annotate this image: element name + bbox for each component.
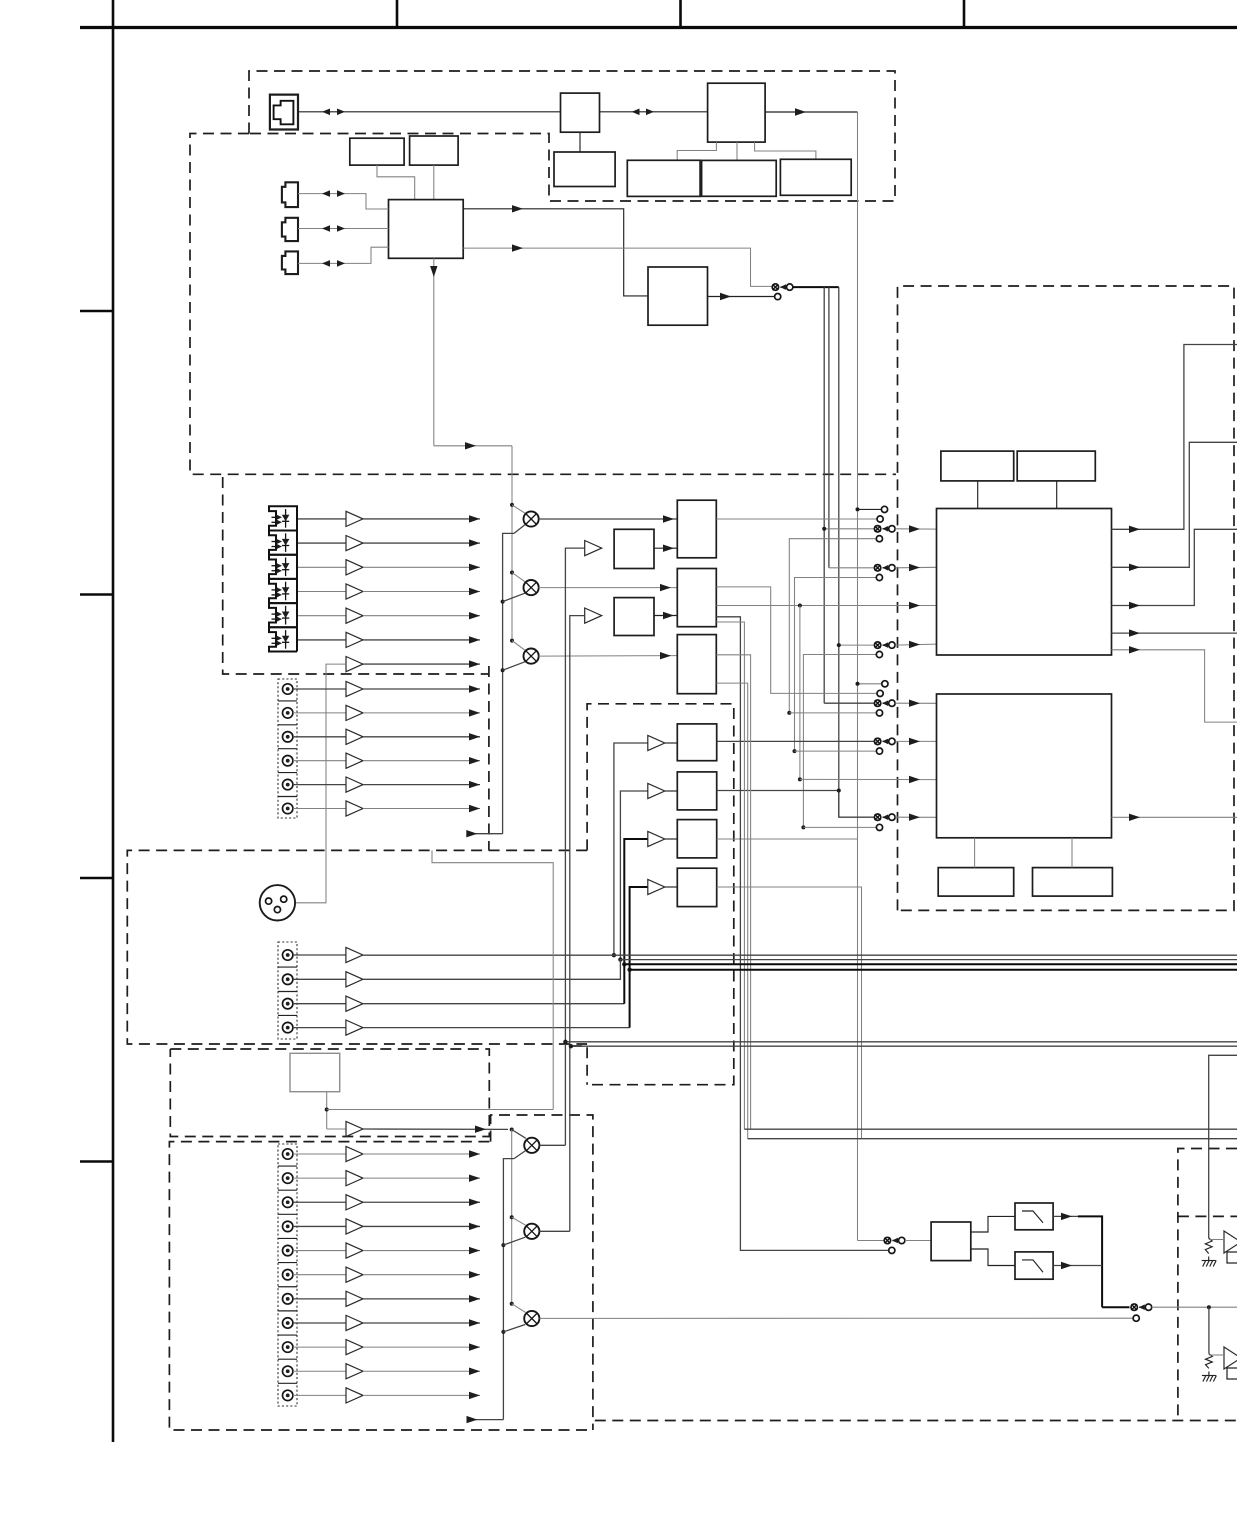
wire amp output [363,1370,480,1372]
wire amp output [363,712,480,714]
jack strip separator [278,796,297,798]
buffer amp xlr 1 [346,947,363,962]
dashed boundary XLR region [127,850,587,1044]
wire diag to mixer2b [512,1217,526,1225]
wire filter1 out [1053,1215,1080,1217]
block DAC1 [677,724,716,761]
wire row2 feed [829,567,874,569]
buffer amp optical 5 [346,608,363,623]
switch S2 [884,1237,890,1243]
contact [877,516,883,522]
RCA jack top 2 [283,708,293,718]
wire rom1 stub [974,838,976,868]
RCA jack bottom 7 [283,1294,293,1304]
wire selector2 return arrow [470,1419,503,1421]
wire jack to amp [293,1370,346,1372]
wire M5 out [539,1230,569,1232]
wire DSP1 out4 [1112,632,1237,634]
wire U10 bottom output [433,258,435,446]
wire diag mixer2 low [503,593,525,601]
wire DSP1 out3 [1112,529,1237,605]
wire jack to amp [293,1003,346,1005]
wire XLR to amp7 [295,664,346,903]
jack strip separator [278,700,297,702]
contact [876,710,882,716]
wire dock lateral [327,1109,554,1111]
wire diag to mixer3 [512,641,526,651]
RCA jack xlr 1 [283,950,293,960]
wire U3 stub mid [736,142,738,160]
wire amp output [363,1250,480,1252]
wire amp 5 output [363,615,480,617]
wire vertical B [828,287,830,568]
wire bus lower double 2 [748,1138,1237,1140]
mixer M5 [524,1224,539,1239]
wire jack to amp [293,1322,346,1324]
wire DIR3 out bundle3 [716,683,747,1139]
frame tick left 4 [80,1160,113,1163]
wire amp 6 output [363,639,480,641]
wire jack to amp [293,688,346,690]
ground [1208,1372,1210,1376]
dashed boundary analog-input region [169,1142,593,1430]
wire jack to amp [293,1201,346,1203]
wire xlr amp4 bus thick [630,970,1237,1028]
buffer amp dac 3 [648,831,665,846]
RCA jack top 1 [283,684,293,694]
wire link4 lower [803,826,876,828]
block DAC4 [677,868,716,906]
switch S1 [772,284,778,290]
buffer amp xlr 4 [346,1020,363,1035]
buffer amp dac 2 [648,783,665,798]
optical jack bank [269,506,297,530]
wire jack to amp [293,1274,346,1276]
wire amp 2 output [363,542,480,544]
junction [856,682,860,686]
mixer M6 [524,1311,539,1326]
jack strip separator [278,1334,297,1336]
junction [798,604,802,608]
RCA jack bottom 5 [283,1245,293,1255]
op-amp PA1 [1224,1231,1237,1253]
junction [501,600,505,604]
wire optical jack 4 to amp [298,591,346,593]
wire J2 to U10 [298,194,389,209]
op-amp PA2 [1224,1347,1237,1369]
wire diag mixer3 low [503,662,525,671]
wire jack to amp [293,1177,346,1179]
wire M1 to DIR1 [539,518,678,520]
wire amp output [363,1322,480,1324]
wire amp 1 output [363,518,480,520]
buffer amp bottom 1 [346,1146,363,1161]
wire selector2 vertical 2 [503,1159,514,1420]
wire link3 [799,606,801,780]
dashed boundary digital-main region [190,134,896,475]
wire optical jack 6 to amp [298,639,346,641]
wire ram1 stub [977,481,979,509]
wire amp output [363,1394,480,1396]
jack strip separator [278,772,297,774]
mixer M1 [524,511,539,526]
junction [798,777,802,781]
wire dock down [326,1092,328,1129]
junction [793,749,797,753]
wire amp to block [665,790,678,792]
dashed boundary dock region [170,1049,489,1137]
switch row2 [874,565,880,571]
wire U8 to U10 [377,165,415,200]
mixer M3 [524,649,539,664]
RCA jack bottom 1 [283,1149,293,1159]
RCA jack bottom 2 [283,1173,293,1183]
wire amp to block [665,742,678,744]
block U5 [627,160,700,196]
RCA jack strip top [278,679,297,818]
dashed boundary digital-top region [249,71,895,201]
wire R2 to amp [1209,1354,1223,1356]
junction [510,571,514,575]
wire jack to amp [293,1153,346,1155]
block DSP-RAM2 [1017,451,1095,481]
frame tick left 1 [80,310,113,313]
jack strip separator [278,991,297,993]
resistor R2 [1206,1354,1213,1369]
block DIR3 [677,635,716,694]
wire xlr amp3 out [363,1003,624,1005]
wire amp output [363,1298,480,1300]
frame tick top 1 [396,0,399,28]
wire optical jack 5 to amp [298,615,346,617]
wire bus feed to amp 1 [614,743,648,955]
block U4 [554,152,615,187]
block DIR2 [677,569,716,627]
wire DSP1 out5 [1112,650,1237,722]
buffer amp bottom 11 [346,1388,363,1403]
wire xlr amp3 bus thick [624,964,1237,1003]
wire selector vertical 1 [511,446,513,641]
buffer amp dac 1 [648,735,665,750]
connector J4 [282,251,298,274]
RCA jack strip xlr [278,942,297,1039]
wire amp output [363,1225,480,1227]
dashed boundary power region [1178,1149,1237,1421]
jack strip separator [278,724,297,726]
RCA jack bottom 4 [283,1221,293,1231]
junction [510,1128,514,1132]
wire M2 to DIR2 [539,587,678,589]
wire U2 to U3 [600,111,708,113]
wire diag to mixer2 [512,573,526,583]
RCA jack strip bottom [278,1144,297,1406]
switch row4p [874,814,880,820]
block U10 system micro [389,200,464,259]
RCA jack xlr 3 [283,999,293,1009]
switch row2p [874,738,880,744]
wire diag to mixer1b [512,1130,526,1139]
wire amp output [363,1346,480,1348]
buffer amp optical 2 [346,536,363,551]
RCA jack bottom 8 [283,1318,293,1328]
wire power feed 1 [1209,1055,1237,1238]
IC DSP2 [937,694,1112,838]
page frame left border [112,0,115,1442]
contact node [775,294,781,300]
wire link2 lower [795,750,877,752]
wire row1 feed [824,528,874,530]
wire link2 [795,578,877,752]
wire J4 to U10 [298,247,389,263]
RCA jack top 6 [283,803,293,813]
buffer amp bottom 5 [346,1243,363,1258]
wire amp output [363,784,480,786]
buffer amp optical 4 [346,584,363,599]
wire ram2 stub [1056,481,1058,509]
buffer amp bottom 6 [346,1267,363,1282]
frame tick top 3 [963,0,966,28]
wire jack to amp [293,784,346,786]
jack strip separator [278,966,297,968]
block DAC2 [677,772,716,810]
wire xlr amp1 bus [363,954,1237,956]
buffer amp bottom 10 [346,1364,363,1379]
wire jack to amp [293,808,346,810]
wire M3 to DIR3 [539,655,678,658]
wire optical jack 1 to amp [298,518,346,520]
wire J1 to U2 [298,111,561,113]
contact [876,651,882,657]
ground [1208,1257,1210,1261]
dashed boundary optical-input right edge [488,666,490,850]
frame tick top 2 [679,0,682,28]
wire xlr amp2 bus [363,960,1237,980]
block U3 main [708,83,766,142]
wire jack to amp [293,736,346,738]
wire M4 out [539,1144,565,1146]
block U6 [702,160,777,196]
junction [822,527,826,531]
jack strip separator [278,1014,297,1016]
wire amp 7 output [363,663,480,665]
bidirectional arrow [322,260,330,267]
switch row4 [874,642,880,648]
jack strip separator [278,1310,297,1312]
junction [510,1302,514,1306]
junction [622,962,626,966]
contact [876,536,882,542]
wire DAC1 out to row2p [717,740,875,742]
wire amp output [363,808,480,810]
buffer amp bottom 7 [346,1291,363,1306]
junction [569,1044,573,1048]
wire bus analog R [571,1045,1237,1047]
contact [881,506,887,512]
dashed boundary input-selector region [491,1115,593,1430]
contact [876,824,882,830]
wire dock amp in [327,1128,346,1130]
wire U10 output 1 [463,209,648,296]
connector J2 [282,182,298,207]
block SW [931,1222,971,1261]
wire amp 3 output [363,566,480,568]
wire SW to filter2 [971,1249,1015,1266]
junction [801,825,805,829]
wire ADC2 feed [570,616,585,1232]
wire row4 to IC1 [895,644,936,645]
wire row1 to IC1 [895,528,936,530]
wire vertical E [857,112,859,1241]
junction [856,507,860,511]
wire ADC1 feed [565,548,584,1145]
wire row4 feed [839,644,874,646]
dashed boundary output region bottom [595,1420,1237,1422]
wire bus feed to amp 3 [624,839,648,964]
frame tick left 3 [80,877,113,880]
resistor R1 [1205,1238,1212,1253]
junction [1207,1305,1211,1309]
jack strip separator [278,1237,297,1239]
wire DIR2 out 2 [716,587,877,694]
wire DIR3 out bundle4 [716,655,750,1129]
dashed boundary DAC-amp region [587,704,734,1085]
mixer M2 [524,580,539,595]
block U13 [614,598,654,636]
connector J1 network jack [270,95,298,130]
buffer amp rca-top 2 [346,705,363,720]
wire diag to mixer1 [512,505,526,514]
wire amp output [363,760,480,762]
wire thick to S3 [1102,1306,1129,1308]
wire bus lower double 1 [744,1128,1237,1130]
wire diag to mixer3b [512,1304,526,1313]
block DIR1 [677,500,716,558]
mixer M4 [524,1138,539,1153]
wire J3 to U10 [298,228,389,230]
wire bus analog L [565,1041,1237,1043]
wire row1p feed [824,702,874,704]
buffer amp rca-top 1 [346,681,363,696]
wire vertical A [823,287,825,703]
block U11 [648,267,708,325]
wire link4 [803,655,876,828]
wire amp to block [665,886,678,888]
contact [876,748,882,754]
wire jack to amp [293,978,346,980]
buffer amp rca-top 4 [346,753,363,768]
wire link1 [789,539,876,713]
buffer amp dac 4 [648,879,665,894]
wire selector2 vertical 1 [511,1130,513,1304]
wire optical jack 3 to amp [298,566,346,568]
junction [837,789,841,793]
wire amp output [363,1177,480,1179]
contact [1133,1315,1139,1321]
wire amp to block [665,838,678,840]
wire DAC4 out [717,887,862,1139]
wire row4p to IC2 [895,816,936,818]
wire E to SW switch [858,1240,885,1242]
wire U13 to DIR2 [654,615,677,617]
wire jack to amp [293,1298,346,1300]
connector J3 [282,218,298,241]
wire R1 to amp [1209,1239,1223,1241]
block U8 [350,138,404,165]
buffer amp optical 3 [346,560,363,575]
jack strip separator [278,1286,297,1288]
junction [501,1243,505,1247]
junction [325,1108,329,1112]
RCA jack xlr 4 [283,1022,293,1032]
jack strip separator [278,1262,297,1264]
IC DSP1 [937,509,1112,656]
jack strip separator [278,1358,297,1360]
junction [837,643,841,647]
contact [889,1247,895,1253]
junction [618,957,622,961]
wire amp output [363,1274,480,1276]
wire jack to amp [293,1250,346,1252]
switch row1 [874,526,880,532]
wire bundle2 [716,622,744,1129]
wire amp output [363,1201,480,1203]
buffer amp rca-top 5 [346,777,363,792]
wire amp output [363,688,480,690]
wire row1p to IC2 [895,702,936,704]
wire xlr amp4 out [363,1027,630,1029]
junction [510,1215,514,1219]
RCA jack bottom 9 [283,1342,293,1352]
wire jack to amp [293,1394,346,1396]
block DSP-RAM1 [941,451,1014,481]
wire U2 to U4 [579,132,581,152]
RCA jack bottom 10 [283,1366,293,1376]
wire link3 to IC2 [800,778,937,780]
block DSP-ROM2 [1033,868,1113,897]
block dock interface [290,1053,340,1091]
junction [563,1040,567,1044]
wire U3 output [765,111,857,113]
buffer amp xlr 2 [346,972,363,987]
RCA jack top 4 [283,756,293,766]
switch row1p [874,700,880,706]
wire U11 output [708,296,775,298]
buffer amp optical 7 [346,657,363,672]
RCA jack bottom 11 [283,1390,293,1400]
junction [627,968,631,972]
bidirectional arrow [632,109,640,116]
buffer amp optical 6 [346,632,363,647]
junction [501,668,505,672]
dashed boundary DSP region [898,286,1235,910]
wire amp 4 output [363,591,480,593]
frame tick left 2 [80,593,113,596]
wire U12 to DIR1 [654,547,677,549]
buffer amp rca-top 3 [346,729,363,744]
wire S3 out [1152,1306,1237,1308]
wire jack to amp [293,954,346,956]
page frame top rule [80,26,1237,29]
bidirectional arrow [322,225,330,232]
wire DAC3 out [717,838,858,840]
buffer amp bottom 9 [346,1340,363,1355]
buffer amp ADC1 [585,541,602,556]
wire DIR2 out row3 [716,605,936,607]
dashed boundary DAC-amp region left lower edge [571,1046,587,1085]
wire jack to amp [293,1346,346,1348]
buffer amp xlr 3 [346,996,363,1011]
junction [501,1330,505,1334]
